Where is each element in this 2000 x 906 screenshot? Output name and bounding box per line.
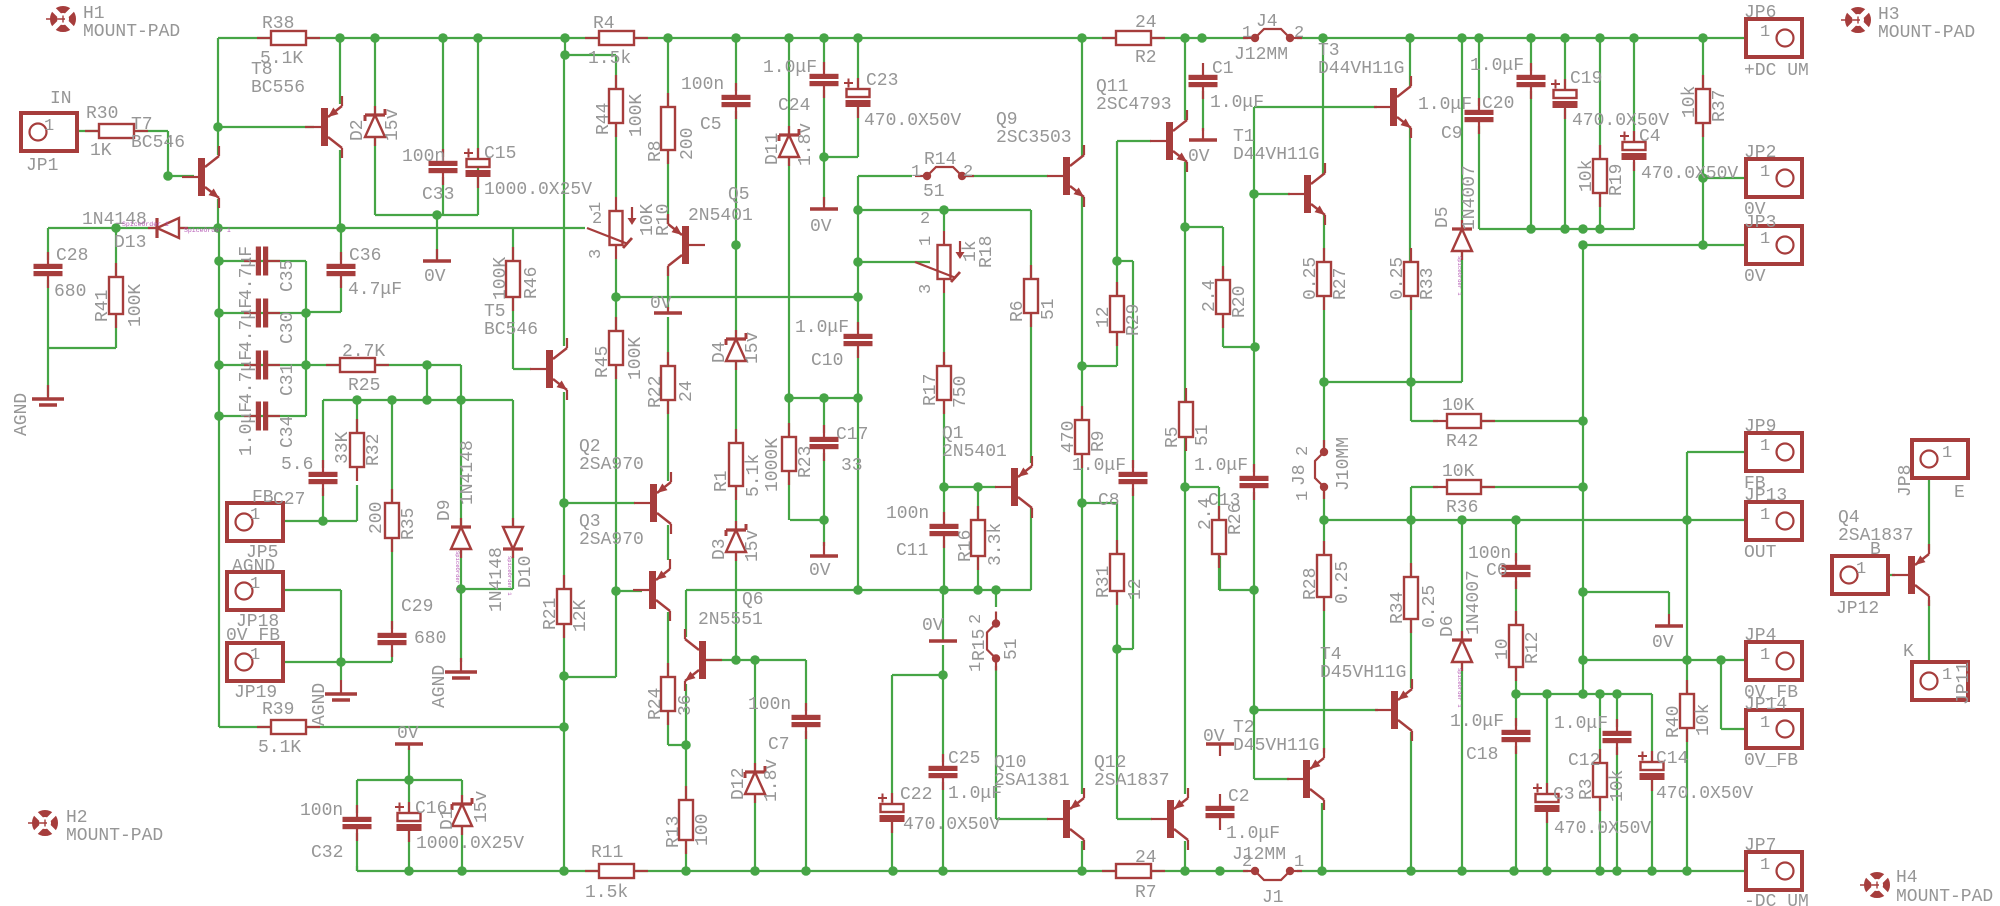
wire D6 bottom xyxy=(1461,663,1463,871)
svg-text:Q3: Q3 xyxy=(579,512,601,532)
wire C35 row xyxy=(219,260,306,262)
svg-text:Q6: Q6 xyxy=(742,590,764,610)
resistor R26 xyxy=(1212,506,1226,568)
wire Q4 collector to JP11 xyxy=(1928,600,1930,672)
connector JP2 xyxy=(1746,159,1802,197)
svg-text:0.25: 0.25 xyxy=(1301,257,1321,300)
svg-text:1: 1 xyxy=(44,117,54,136)
wire R35 to C29 xyxy=(391,538,393,633)
wire T7 collector to rail xyxy=(217,38,219,155)
wire R20 top jog xyxy=(1186,226,1223,228)
wire C36 column xyxy=(340,228,342,312)
junction xyxy=(1682,655,1692,665)
wire JP2 net xyxy=(1703,177,1774,179)
svg-text:K: K xyxy=(1903,642,1914,662)
svg-text:51: 51 xyxy=(1002,638,1022,660)
potentiometer R18 xyxy=(915,231,965,293)
wire R16 bottom xyxy=(977,556,979,590)
svg-text:R12: R12 xyxy=(1523,632,1543,664)
wire C16 bottom xyxy=(408,830,410,871)
connector JP4 xyxy=(1746,642,1802,680)
junction xyxy=(1698,33,1708,43)
svg-text:R17: R17 xyxy=(921,374,941,406)
diode D10 xyxy=(503,518,523,558)
transistor Q10 xyxy=(1047,788,1084,850)
wire R40 column top xyxy=(1686,452,1688,694)
junction xyxy=(1405,33,1415,43)
wire R8 to Q5 emitter xyxy=(667,150,669,224)
svg-text:Q4: Q4 xyxy=(1838,508,1860,528)
resistor R41 xyxy=(109,263,123,328)
svg-text:51: 51 xyxy=(1039,298,1059,320)
wire C29 bottom xyxy=(391,645,393,662)
junction xyxy=(301,360,311,370)
svg-text:D13: D13 xyxy=(114,233,146,253)
svg-text:0V: 0V xyxy=(424,267,446,287)
junction xyxy=(1180,33,1190,43)
svg-text:AGND: AGND xyxy=(430,665,450,708)
capacitor C10 xyxy=(844,322,873,358)
resistor R3 xyxy=(1593,749,1607,811)
wire diode pair top net xyxy=(323,399,513,401)
svg-text:24: 24 xyxy=(1135,848,1157,868)
svg-text:Q2: Q2 xyxy=(579,437,601,457)
wire R29 bottom xyxy=(1116,332,1118,366)
junction xyxy=(1682,866,1692,876)
svg-text:2SA970: 2SA970 xyxy=(579,455,644,475)
wire T5 base xyxy=(513,368,531,370)
wire R26 top jog xyxy=(1185,486,1219,488)
junction xyxy=(991,585,1001,595)
wire R34 top xyxy=(1410,520,1412,577)
wire Q12 base xyxy=(1117,818,1152,820)
wire AGND stub xyxy=(340,662,342,680)
svg-text:15v: 15v xyxy=(472,790,492,823)
svg-text:C10: C10 xyxy=(811,351,843,371)
wire D13 net xyxy=(48,227,585,229)
svg-text:JP12: JP12 xyxy=(1836,599,1879,619)
junction xyxy=(1250,342,1260,352)
wire Q11 base column xyxy=(1116,141,1118,296)
junction xyxy=(1595,33,1605,43)
svg-text:200: 200 xyxy=(367,502,387,534)
wire C23 top xyxy=(857,38,859,89)
svg-text:D5: D5 xyxy=(1433,206,1453,228)
jumper R14 xyxy=(915,167,974,180)
wire Q9 collector xyxy=(1081,38,1083,156)
svg-text:1.0μF: 1.0μF xyxy=(1210,93,1264,113)
wire D10 bottom xyxy=(512,548,514,589)
svg-text:SpiceOrder 1: SpiceOrder 1 xyxy=(454,551,461,591)
wire R46 to T5 base xyxy=(512,297,514,369)
wire C13 bottom column xyxy=(1253,489,1255,779)
wire Q3 collector to R24 xyxy=(667,612,669,677)
svg-text:470.0X50V: 470.0X50V xyxy=(1641,164,1738,184)
svg-text:C4: C4 xyxy=(1639,127,1661,147)
wire Q10 base xyxy=(996,818,1048,820)
svg-text:R32: R32 xyxy=(364,434,384,466)
wire T3 emitter to R33 xyxy=(1409,127,1411,262)
wire R23 0V jog xyxy=(790,519,824,521)
capacitor C36 xyxy=(327,252,356,288)
capacitor C35 xyxy=(244,247,280,276)
svg-text:1.0μF: 1.0μF xyxy=(1072,456,1126,476)
connector JP6 xyxy=(1746,19,1802,57)
wire C22 jog xyxy=(892,674,943,676)
capacitor C17 xyxy=(810,425,839,461)
junction xyxy=(1682,515,1692,525)
svg-text:R8: R8 xyxy=(646,140,666,162)
wire R31 top jog xyxy=(1082,502,1117,504)
junction xyxy=(422,395,432,405)
wire R15 bottom xyxy=(995,666,997,819)
wire R33 to R42 xyxy=(1410,296,1412,421)
junction xyxy=(1249,585,1259,595)
wire R37 top xyxy=(1702,38,1704,89)
junction xyxy=(559,866,569,876)
connector JP9 xyxy=(1746,433,1802,471)
junction xyxy=(404,775,414,785)
svg-text:0V: 0V xyxy=(650,294,672,314)
wire D12 bottom xyxy=(754,795,756,871)
junction xyxy=(1629,33,1639,43)
junction xyxy=(1647,866,1657,876)
svg-text:T8: T8 xyxy=(251,60,273,80)
wire JP8 to Q4 emitter xyxy=(1928,468,1930,550)
resistor R30 xyxy=(85,124,148,138)
svg-text:JP14: JP14 xyxy=(1744,695,1787,715)
svg-text:R13: R13 xyxy=(664,816,684,848)
svg-text:24: 24 xyxy=(677,380,697,402)
wire C19 top xyxy=(1564,38,1566,91)
wire JP18 down xyxy=(340,590,342,662)
wire D2 column xyxy=(374,38,376,215)
wire Q6 collector up xyxy=(685,590,687,637)
wire C31 row xyxy=(219,364,306,366)
svg-text:JP9: JP9 xyxy=(1744,417,1776,437)
svg-text:BC546: BC546 xyxy=(484,320,538,340)
wire C27 bottom xyxy=(322,484,324,521)
wire R3 bottom xyxy=(1599,797,1601,871)
wire R40 bottom xyxy=(1686,728,1688,871)
resistor R2 xyxy=(1102,31,1165,45)
svg-text:1.8v: 1.8v xyxy=(762,759,782,802)
svg-text:680: 680 xyxy=(54,282,86,302)
diode D12 xyxy=(745,763,765,803)
svg-text:J8: J8 xyxy=(1290,464,1310,486)
svg-text:R19: R19 xyxy=(1607,164,1627,196)
svg-text:10k: 10k xyxy=(1608,770,1628,802)
capacitor C1 xyxy=(1189,63,1218,99)
svg-text:1: 1 xyxy=(250,646,260,665)
capacitor C20 xyxy=(1517,63,1546,99)
svg-text:0.25: 0.25 xyxy=(1420,585,1440,628)
svg-text:R36: R36 xyxy=(1446,498,1478,518)
junction xyxy=(853,393,863,403)
junction xyxy=(1578,240,1588,250)
wire cap box top xyxy=(357,779,462,781)
wire T2 collector xyxy=(1321,803,1323,871)
junction xyxy=(1595,689,1605,699)
wire D4 R1 xyxy=(735,361,737,443)
svg-text:MOUNT-PAD: MOUNT-PAD xyxy=(1878,23,1975,43)
capacitor C23 xyxy=(844,78,871,118)
svg-text:JP13: JP13 xyxy=(1744,486,1787,506)
wire JP9 net xyxy=(1687,451,1774,453)
svg-text:12: 12 xyxy=(1126,578,1146,600)
wire C14 top xyxy=(1651,694,1653,763)
connector JP11 xyxy=(1912,662,1968,700)
wire R16 top xyxy=(977,487,979,520)
wire AGND2 stub xyxy=(460,589,462,662)
svg-text:5.1K: 5.1K xyxy=(258,738,301,758)
wire R46 top xyxy=(512,228,514,261)
wire bottom 0V_FB net xyxy=(1516,693,1652,695)
supply 0V C17 xyxy=(810,542,838,556)
wire R14 feed xyxy=(858,175,912,177)
svg-text:D11: D11 xyxy=(763,133,783,165)
wire C17 bottom xyxy=(823,448,825,546)
mount pad H2 xyxy=(28,810,58,836)
resistor R44 xyxy=(609,75,623,137)
diode D11 xyxy=(779,126,799,166)
svg-text:1.0μF: 1.0μF xyxy=(1554,714,1608,734)
svg-text:IN: IN xyxy=(50,89,72,109)
junction xyxy=(1542,866,1552,876)
connector JP13 xyxy=(1746,502,1802,540)
svg-text:1N4148: 1N4148 xyxy=(487,547,507,612)
jumper R15 xyxy=(987,612,1000,671)
capacitor C22 xyxy=(878,793,905,833)
transistor T4 xyxy=(1375,679,1412,741)
svg-text:-DC UM: -DC UM xyxy=(1744,892,1809,906)
wire C5 D4 column xyxy=(735,107,737,339)
svg-text:D44VH11G: D44VH11G xyxy=(1233,145,1319,165)
wire lower net xyxy=(686,589,1031,591)
svg-text:470.0X50V: 470.0X50V xyxy=(1554,819,1651,839)
wire JP19 net xyxy=(251,661,392,663)
junction xyxy=(973,585,983,595)
svg-text:MOUNT-PAD: MOUNT-PAD xyxy=(66,826,163,846)
resistor R17 xyxy=(937,352,951,414)
transistor Q5 xyxy=(668,214,705,276)
wire C18 bottom xyxy=(1515,742,1517,871)
wire T2 base xyxy=(1254,778,1289,780)
svg-text:Q12: Q12 xyxy=(1094,753,1126,773)
wire to R13 xyxy=(685,745,687,800)
junction xyxy=(473,33,483,43)
svg-text:AGND: AGND xyxy=(12,393,32,436)
wire JP4 net xyxy=(1583,659,1756,661)
svg-text:Q10: Q10 xyxy=(994,753,1026,773)
svg-text:SpiceOrder 1: SpiceOrder 1 xyxy=(1456,668,1463,708)
wire 0V to R22 xyxy=(667,317,669,366)
junction xyxy=(1560,33,1570,43)
junction xyxy=(387,395,397,405)
resistor R27 xyxy=(1317,248,1331,310)
svg-text:100n: 100n xyxy=(681,75,724,95)
wire C1 to 0V xyxy=(1202,87,1204,131)
capacitor C3 xyxy=(1533,783,1560,823)
svg-text:R3: R3 xyxy=(1577,778,1597,800)
junction xyxy=(1595,866,1605,876)
svg-text:Q5: Q5 xyxy=(728,185,750,205)
svg-text:1.0μF: 1.0μF xyxy=(795,318,849,338)
capacitor C19 xyxy=(1551,79,1578,119)
svg-text:D12: D12 xyxy=(729,768,749,800)
svg-text:10k: 10k xyxy=(1694,704,1714,736)
wire Q6 emitter down xyxy=(685,684,687,745)
supply 0V R39 xyxy=(395,744,423,750)
wire C27 top xyxy=(322,400,324,472)
wire R25 tap xyxy=(426,365,428,400)
svg-text:3.3k: 3.3k xyxy=(986,523,1006,566)
resistor R7 xyxy=(1102,864,1165,878)
junction xyxy=(819,152,829,162)
svg-text:1: 1 xyxy=(1942,444,1952,463)
wire C32 top xyxy=(356,780,358,817)
svg-text:C35: C35 xyxy=(278,260,298,292)
wire Q5 collector net xyxy=(616,296,858,298)
svg-text:1000.0X25V: 1000.0X25V xyxy=(484,180,592,200)
wire R26 top xyxy=(1218,487,1220,520)
junction xyxy=(1511,515,1521,525)
wire D9 top jog xyxy=(460,365,462,400)
wire R14 C10 column xyxy=(857,176,859,590)
junction xyxy=(1509,866,1519,876)
wire R45 Q3 base column xyxy=(615,297,617,677)
svg-text:T2: T2 xyxy=(1233,718,1255,738)
svg-text:R37: R37 xyxy=(1710,90,1730,122)
svg-text:D6: D6 xyxy=(1438,615,1458,637)
diode D3 xyxy=(726,521,746,561)
svg-text:R16: R16 xyxy=(956,530,976,562)
wire R39 right xyxy=(306,726,564,728)
svg-text:1: 1 xyxy=(1760,856,1770,875)
svg-text:AGND: AGND xyxy=(310,683,330,726)
junction xyxy=(1077,361,1087,371)
wire T1 collector xyxy=(1322,38,1324,174)
svg-text:R14: R14 xyxy=(924,150,956,170)
diode D2 xyxy=(365,106,385,146)
wire T3 collector xyxy=(1409,38,1411,86)
transistor T3 xyxy=(1374,76,1411,138)
svg-text:R5: R5 xyxy=(1163,426,1183,448)
supply 0V C2 xyxy=(1206,744,1234,756)
svg-text:C2: C2 xyxy=(1228,787,1250,807)
svg-text:C34: C34 xyxy=(278,416,298,448)
svg-text:10K: 10K xyxy=(1442,462,1475,482)
svg-text:C24: C24 xyxy=(778,96,810,116)
wire C8 top xyxy=(1132,261,1134,472)
svg-text:D45VH11G: D45VH11G xyxy=(1320,663,1406,683)
svg-text:2N5551: 2N5551 xyxy=(698,610,763,630)
junction xyxy=(1406,377,1416,387)
wire C32 bottom xyxy=(356,829,358,871)
wire C5 top xyxy=(735,38,737,95)
wire R34 to T4 emitter xyxy=(1410,619,1412,688)
junction xyxy=(213,223,223,233)
svg-text:33K: 33K xyxy=(333,431,353,464)
svg-text:1.0μF: 1.0μF xyxy=(1450,712,1504,732)
svg-text:10K: 10K xyxy=(1442,396,1475,416)
svg-text:FB: FB xyxy=(252,488,274,508)
svg-text:0V: 0V xyxy=(1188,147,1210,167)
junction xyxy=(335,33,345,43)
wire D1 bottom xyxy=(461,827,463,871)
svg-text:JP11: JP11 xyxy=(1954,662,1974,705)
supply 0V C24 xyxy=(810,197,838,209)
wire xyxy=(356,866,358,871)
junction xyxy=(888,866,898,876)
junction xyxy=(1180,482,1190,492)
diode D1 xyxy=(452,795,472,835)
junction xyxy=(370,33,380,43)
svg-text:H4: H4 xyxy=(1896,868,1918,888)
wire R1 D3 xyxy=(735,486,737,530)
diode D6 xyxy=(1452,631,1472,671)
connector JP12 xyxy=(1832,556,1888,594)
wire R39 left xyxy=(219,726,271,728)
junction xyxy=(819,393,829,403)
svg-text:MOUNT-PAD: MOUNT-PAD xyxy=(1896,887,1993,906)
junction xyxy=(1612,866,1622,876)
svg-text:D9: D9 xyxy=(435,499,455,521)
resistor R16 xyxy=(971,506,985,570)
junction xyxy=(1457,515,1467,525)
wire D5 top xyxy=(1461,38,1463,229)
junction xyxy=(784,393,794,403)
potentiometer R10 xyxy=(587,197,637,259)
svg-text:15v: 15v xyxy=(743,529,763,562)
svg-text:BC556: BC556 xyxy=(251,78,305,98)
svg-text:D1: D1 xyxy=(438,808,458,830)
svg-text:R29: R29 xyxy=(1124,304,1144,336)
svg-text:R44: R44 xyxy=(594,103,614,135)
wire C16 top xyxy=(408,780,410,813)
svg-text:0.25: 0.25 xyxy=(1333,561,1353,604)
resistor R1 xyxy=(729,429,743,500)
wire C11 bottom xyxy=(943,537,945,590)
junction xyxy=(1317,866,1327,876)
svg-text:R40: R40 xyxy=(1664,706,1684,738)
svg-text:0V: 0V xyxy=(922,616,944,636)
svg-text:1.5k: 1.5k xyxy=(588,49,631,69)
resistor R4 xyxy=(585,31,648,45)
resistor R36 xyxy=(1433,480,1495,494)
svg-text:J12MM: J12MM xyxy=(1234,45,1288,65)
junction xyxy=(939,585,949,595)
svg-text:2: 2 xyxy=(1294,24,1304,43)
wire D10 top xyxy=(512,400,514,528)
wire R22 to Q2 emitter xyxy=(667,400,669,481)
svg-text:2: 2 xyxy=(967,614,986,624)
jumper J8 xyxy=(1315,440,1328,499)
capacitor C25 xyxy=(929,754,958,790)
svg-text:1: 1 xyxy=(917,236,936,246)
svg-text:C22: C22 xyxy=(900,785,932,805)
wire C14 bottom xyxy=(1651,780,1653,871)
jumper J4 xyxy=(1243,29,1302,42)
svg-text:1.8v: 1.8v xyxy=(796,123,816,166)
svg-text:51: 51 xyxy=(1193,424,1213,446)
capacitor C18 xyxy=(1502,718,1531,754)
svg-text:1: 1 xyxy=(250,506,260,525)
svg-text:B: B xyxy=(1870,540,1881,560)
wire C33 C15 bottom xyxy=(375,214,478,216)
svg-text:SpiceOrder 1: SpiceOrder 1 xyxy=(184,227,231,234)
svg-text:D4: D4 xyxy=(710,341,730,363)
